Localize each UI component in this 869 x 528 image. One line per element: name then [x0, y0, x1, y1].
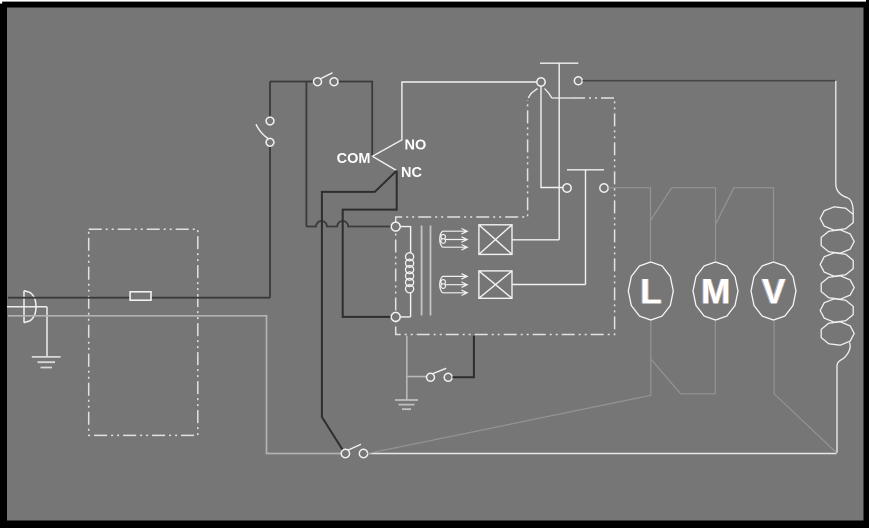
transformer TR1 top terminal: [391, 222, 400, 231]
wire bottom rail (S4 to coil): [368, 453, 837, 455]
coupling arrows (lower secondary): [440, 274, 467, 296]
switch S2: [314, 78, 322, 86]
relay K1 contact: COM to NC arm: [372, 156, 396, 170]
terminal node T4: [600, 184, 608, 192]
ground G1 (microphone): [32, 357, 61, 368]
transformer TR1 bottom terminal: [391, 312, 400, 321]
switch S3: [427, 373, 435, 381]
ground G2: [395, 400, 418, 409]
relay K1 contact: COM to NO arm: [372, 82, 536, 156]
label L: [639, 273, 662, 312]
svg-text:L: L: [640, 273, 661, 312]
terminal node T3: [563, 184, 571, 192]
terminal node T1: [537, 78, 545, 86]
wire T1 to T3: [541, 86, 563, 187]
meter L (lamp): [628, 262, 673, 320]
meter M (milliammeter): [693, 262, 738, 320]
svg-text:M: M: [701, 273, 730, 312]
wire shield to ground G2 with branch to switch S3: [407, 336, 427, 400]
meter V (voltmeter): [751, 262, 796, 320]
transformer TR1 primary winding: [406, 253, 414, 293]
svg-text:NC: NC: [401, 165, 422, 181]
wire meter bus bottom (S4 to L,M; V to rail): [368, 321, 837, 453]
microphone MIC: [24, 291, 36, 323]
svg-text:COM: COM: [337, 151, 371, 167]
wire T2 to loudspeaker coil (top right bus): [583, 80, 836, 82]
enclosure box 1 (left dash-dot shield): [89, 229, 198, 435]
label M: [700, 273, 731, 312]
antenna A1 with down-lead to detector: [512, 63, 578, 240]
wire NC branch 1 (to bottom switch): [322, 171, 397, 452]
transformer TR1 core: [422, 226, 431, 316]
wire node A riser to switch S1: [269, 82, 271, 298]
switch S4 (bottom): [341, 449, 349, 457]
wire microphone to ground: [7, 307, 47, 357]
fuse F1: [130, 292, 151, 300]
wire lower return (mic to bottom switch): [8, 316, 341, 454]
enclosure box 2 (detector/transformer dash-dot shield): [396, 98, 615, 335]
wire S3 to shield: [452, 336, 474, 378]
svg-text:NO: NO: [405, 138, 427, 154]
svg-text:V: V: [762, 273, 786, 312]
coupling arrows (upper secondary): [440, 229, 467, 250]
transformer TR1 primary leads: [400, 227, 410, 317]
detector D2 (crossed box): [479, 271, 512, 298]
wire NC branch 2 (to transformer bottom terminal): [343, 171, 397, 317]
shield entry bump at T1: [528, 89, 572, 99]
wire top bus to switch S2 and COM: [270, 82, 372, 156]
antenna A2 with down-lead: [512, 170, 604, 285]
detector D1 (crossed box): [479, 225, 512, 255]
terminal node T2: [574, 77, 582, 85]
inductor L1 (loudspeaker coil): [820, 81, 854, 453]
wire fuse line (mic to node A): [8, 297, 270, 299]
switch S1: [266, 138, 274, 146]
label V: [761, 273, 787, 312]
wire meter bus top (T4 to L,M,V): [608, 188, 773, 261]
wire branch with hops to transformer top terminal: [306, 82, 391, 227]
